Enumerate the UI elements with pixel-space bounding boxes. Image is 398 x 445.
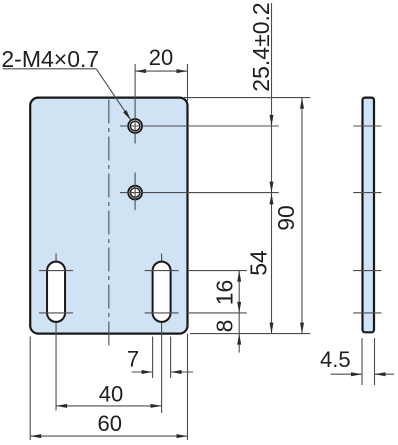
right slot centerline bbox=[161, 254, 163, 335]
dim 25.4 down arrow bbox=[270, 182, 274, 193]
dim 7 right line bbox=[171, 371, 193, 373]
extension line top edge right bbox=[184, 97, 310, 99]
hole H1 horizontal center mark + extension line bbox=[120, 125, 279, 127]
extension line slot bottom arc right bbox=[188, 312, 247, 314]
dim 20 left arrow bbox=[135, 69, 146, 73]
leader arrow bbox=[123, 110, 131, 120]
hole H1 vertical center mark + extension to 20 dim bbox=[134, 64, 136, 144]
svg-text:54: 54 bbox=[246, 250, 272, 276]
dim 40 line bbox=[56, 405, 162, 407]
dim 60 right arrow bbox=[177, 434, 188, 438]
leader line bbox=[96, 69, 131, 121]
dim 8 up arrow bbox=[237, 334, 241, 345]
svg-text:8: 8 bbox=[212, 320, 238, 333]
hole H1 outer circle bbox=[128, 119, 142, 133]
svg-text:2-M4×0.7: 2-M4×0.7 bbox=[1, 46, 99, 72]
dim 16 up arrow bbox=[237, 271, 241, 282]
hole H2 outer circle bbox=[128, 186, 142, 200]
extension line plate right edge up bbox=[187, 64, 189, 101]
extension line plate right edge down bbox=[187, 334, 189, 440]
dim 25.4 up arrow bbox=[270, 115, 274, 126]
dim 90 down arrow bbox=[300, 323, 304, 334]
dim 7 left line bbox=[132, 371, 153, 373]
dim 7 right arrow bbox=[171, 370, 182, 374]
svg-text:60: 60 bbox=[98, 411, 122, 436]
svg-text:4.5: 4.5 bbox=[320, 347, 351, 372]
dim 60 line bbox=[30, 435, 187, 437]
left slot L1 bbox=[47, 262, 65, 322]
dim 90 line bbox=[301, 98, 303, 334]
hole H2 vertical center mark bbox=[134, 172, 136, 210]
dim 16 down arrow bbox=[237, 302, 241, 313]
dim 4.5 right arrow bbox=[375, 372, 386, 376]
extension line plate left edge down bbox=[29, 337, 31, 441]
dim 90 up arrow bbox=[300, 98, 304, 109]
left slot center marks bbox=[39, 271, 73, 313]
front view plate bbox=[30, 98, 187, 334]
svg-text:20: 20 bbox=[149, 45, 173, 70]
dim 54 up arrow bbox=[270, 193, 274, 204]
extension line right slot left edge down bbox=[152, 337, 154, 379]
side view hole H1 line bbox=[353, 125, 381, 127]
hole H2 inner circle bbox=[130, 188, 139, 197]
extension line right slot right edge down bbox=[170, 337, 172, 379]
dim 20 line bbox=[135, 70, 187, 72]
extension line side right edge down bbox=[374, 338, 376, 385]
dim 40 left arrow bbox=[56, 404, 67, 408]
hole H1 inner circle bbox=[130, 121, 139, 130]
svg-text:40: 40 bbox=[99, 382, 123, 407]
side view hole H2 line bbox=[353, 192, 381, 194]
dim 25.4 and 54 vertical line bbox=[271, 3, 273, 334]
dim 7 left arrow bbox=[142, 370, 153, 374]
dim 40 right arrow bbox=[151, 404, 162, 408]
dim 4.5 left line bbox=[331, 373, 363, 375]
plate vertical centerline bbox=[108, 100, 110, 348]
dim 54 down arrow bbox=[270, 323, 274, 334]
extension line slot top arc right bbox=[188, 270, 247, 272]
dim 4.5 right line bbox=[375, 373, 395, 375]
dim 20 right arrow bbox=[177, 69, 188, 73]
extension line left slot center down bbox=[55, 334, 57, 411]
svg-text:90: 90 bbox=[273, 205, 299, 231]
extension line right slot center down bbox=[161, 334, 163, 413]
svg-text:7: 7 bbox=[127, 347, 139, 372]
dim 60 left arrow bbox=[30, 434, 41, 438]
right slot L2 bbox=[153, 262, 171, 322]
side view slot bottom line bbox=[353, 312, 381, 314]
dim 4.5 left arrow bbox=[351, 372, 362, 376]
side view slot top line bbox=[353, 270, 381, 272]
hole H2 horizontal center mark + extension line bbox=[120, 192, 279, 194]
svg-text:16: 16 bbox=[212, 280, 238, 306]
left slot centerline bbox=[55, 254, 57, 335]
right slot center marks bbox=[145, 271, 179, 313]
dim 16 and 8 vertical line bbox=[238, 271, 240, 353]
side view plate bbox=[363, 98, 375, 333]
label underline bbox=[3, 68, 97, 70]
extension line side left edge down bbox=[361, 338, 363, 385]
extension line bottom edge right bbox=[190, 333, 310, 335]
svg-text:25.4±0.2: 25.4±0.2 bbox=[248, 2, 274, 91]
